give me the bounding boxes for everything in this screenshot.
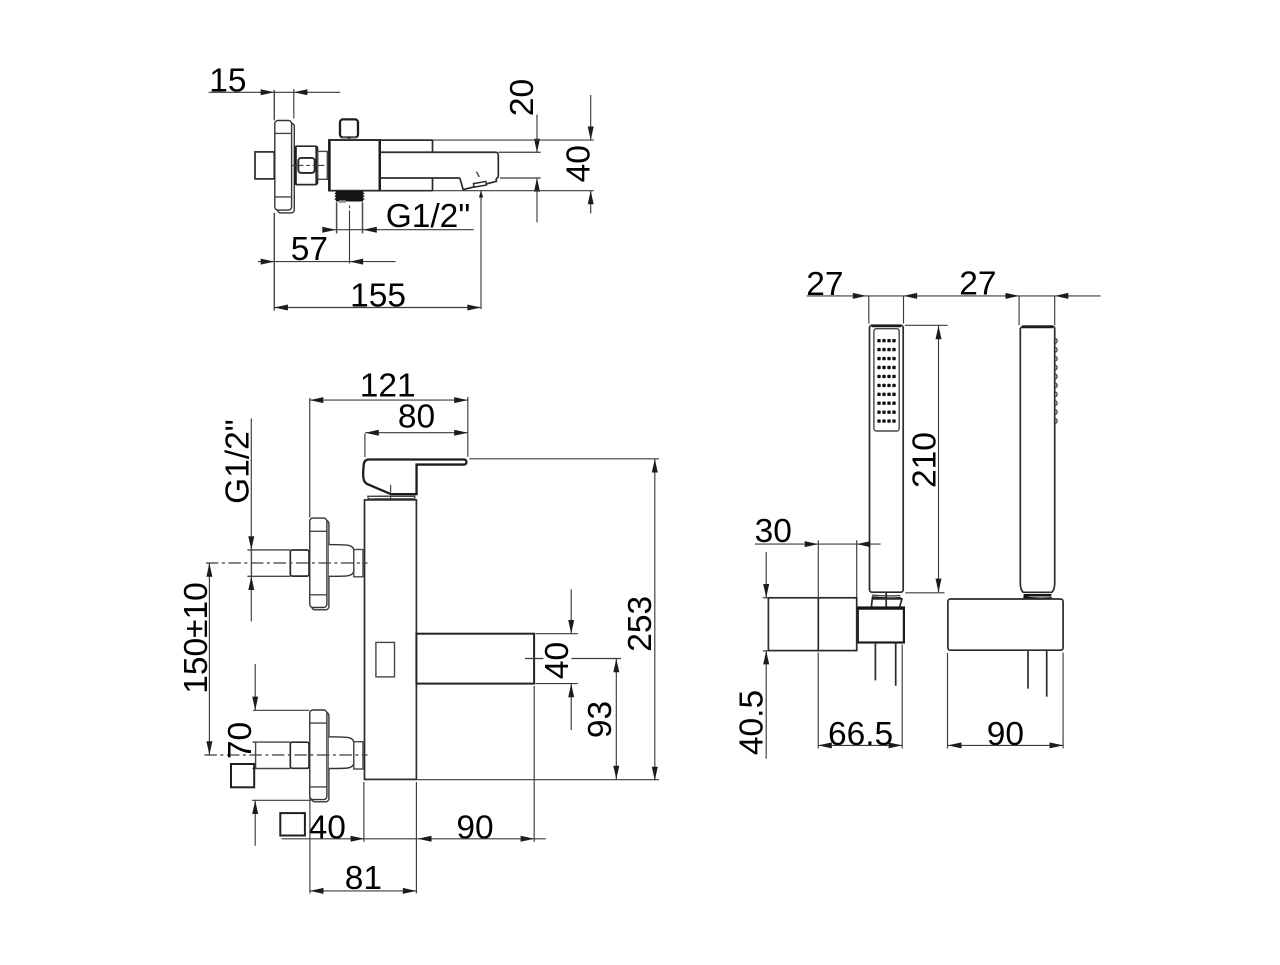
dimension 27 + 27 (wand widths): [806, 266, 1100, 325]
svg-text:90: 90: [987, 716, 1024, 753]
svg-text:155: 155: [350, 277, 406, 314]
svg-text:40: 40: [309, 809, 346, 846]
dimension 57 (wall to outlet centre): [258, 231, 396, 268]
dimension square-40 (body width) and 90 (spout reach): [280, 686, 546, 893]
dimension 15 (wall flange thickness): [209, 62, 341, 118]
svg-text:15: 15: [209, 62, 246, 99]
svg-text:70: 70: [222, 722, 259, 759]
handle lever: [363, 460, 466, 495]
lower wall flange front: [310, 710, 327, 800]
holder clamp block: [857, 608, 905, 643]
wand body (side): [1020, 326, 1054, 592]
wall flange front face: [275, 121, 292, 211]
hose stubs (right figure): [1028, 650, 1047, 697]
dimension 66.5 (holder depth): [818, 645, 902, 753]
dimension 20 (spout mouth height): [499, 79, 542, 222]
dimension 40.5 (bracket height): [734, 552, 771, 759]
diverter knob on top of body: [340, 119, 358, 138]
svg-text:210: 210: [906, 432, 943, 488]
hex adapter with inner square: [292, 146, 332, 184]
handle pivot centre line: [390, 485, 392, 506]
dimension 210 (wand length): [905, 325, 948, 593]
spout centre line (dash-dot): [525, 658, 621, 660]
dimension 80 (body to handle tip): [365, 398, 468, 457]
dimension 40 (spout height, front): [536, 589, 578, 730]
svg-text:40: 40: [561, 145, 598, 182]
wall flange offset (3D back edge): [278, 123, 295, 213]
wand tip fitting (dark band, right figure): [1023, 595, 1052, 599]
hose stubs (left figure): [875, 643, 895, 686]
upper inlet axis (dash-dot): [206, 562, 368, 564]
wand tail cone (left figure): [871, 593, 902, 608]
threaded outlet: black thread band: [335, 191, 365, 203]
spout collar: [329, 140, 433, 191]
svg-text:90: 90: [456, 809, 493, 846]
lower pipe nut: [290, 742, 309, 768]
svg-text:253: 253: [622, 596, 659, 652]
upper inlet pipe stub: [247, 550, 290, 576]
spray nub bumps (right edge): [1055, 339, 1057, 424]
dimension 150±10 (inlet spacing): [178, 563, 215, 755]
svg-text:66.5: 66.5: [828, 716, 893, 753]
svg-text:40: 40: [539, 642, 576, 679]
upper pipe nut: [290, 550, 309, 576]
dimension 93 (spout axis to bottom): [582, 659, 620, 780]
handle square (left of wall): [255, 152, 274, 179]
dimension 30 (wall to wand): [755, 513, 881, 597]
lower body stub: [354, 742, 363, 769]
wall bracket (side view): [768, 598, 856, 651]
dimension 253 (total height): [416, 459, 659, 781]
svg-text:93: 93: [582, 701, 619, 738]
spout tube (top view): [380, 152, 498, 189]
slot detail on body: [376, 642, 395, 677]
outlet centre line (dash-dot): [349, 206, 351, 264]
label G1/2" (front view, inlet thread): [220, 419, 257, 622]
svg-text:40.5: 40.5: [734, 690, 771, 755]
main body block (top view): [329, 140, 380, 191]
wand chrome ring (left figure): [872, 595, 901, 598]
spout (front view): [416, 634, 534, 684]
aerator small rectangle on spout tip: [473, 172, 486, 187]
dimension 121 (flange to handle tip): [310, 367, 468, 517]
upper wall flange front: [310, 518, 327, 607]
svg-text:57: 57: [291, 231, 328, 268]
svg-text:80: 80: [398, 398, 435, 435]
upper body stub: [354, 550, 363, 577]
svg-text:20: 20: [504, 79, 541, 116]
dimension 155 (wall to aerator): [274, 190, 483, 314]
upper wall flange offset: [312, 520, 329, 609]
dimension 40 (spout height, top view): [433, 95, 598, 214]
lower wall flange offset: [312, 712, 329, 802]
dimension square-70 (flange size): [222, 664, 311, 846]
spray face plate: [874, 329, 899, 431]
lower inlet pipe stub: [253, 742, 291, 768]
lower collar cone: [329, 737, 354, 769]
upper collar cone: [329, 545, 354, 577]
handshower wand body: [870, 325, 904, 592]
dimension 81 (wall to body front): [310, 796, 417, 897]
svg-text:27: 27: [806, 266, 843, 303]
dimension 90 (bracket width): [948, 653, 1064, 753]
label G1/2" (outlet thread, top view): [322, 198, 474, 235]
body (front view): [365, 500, 417, 780]
wall bracket plate (front view): [948, 599, 1063, 650]
spray nozzle dot grid (4 x 10): [877, 339, 895, 423]
lower inlet axis (dash-dot): [204, 754, 367, 756]
threaded outlet tube sides: [337, 202, 363, 233]
svg-text:27: 27: [959, 266, 996, 303]
neck between hex and body: [318, 151, 328, 179]
wall surface line: [273, 90, 275, 311]
cartridge ring under handle: [368, 496, 415, 499]
